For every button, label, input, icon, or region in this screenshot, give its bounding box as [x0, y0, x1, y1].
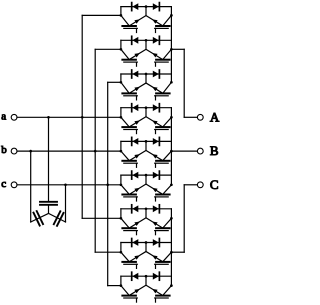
wire: cell S9 top rail: [121, 275, 171, 277]
diode D5b (cathode right): [153, 137, 160, 145]
junction dots cell S2: [120, 48, 123, 51]
wire: cell S1 left stub: [120, 7, 122, 16]
junction: phase b bus on line b: [94, 150, 97, 153]
IGBT T8a (left switch of cell S8): [121, 252, 146, 269]
IGBT T5b (right switch of cell S5): [146, 150, 171, 167]
wire: A branch vertical: [183, 49, 185, 117]
wire: star point to capacitor Cb branch: [31, 213, 49, 222]
svg-text:C: C: [210, 177, 219, 192]
wire: cell S3 top rail: [121, 73, 171, 75]
junction dots cell S6: [120, 183, 123, 186]
svg-text:a: a: [1, 110, 6, 122]
wire: cell S9 left stub: [120, 276, 122, 285]
wire: cell S1 left lead: [82, 14, 121, 16]
wire: A branch to terminal: [184, 116, 197, 118]
IGBT T7a (left switch of cell S7): [121, 218, 146, 235]
wire: Ca to star point: [48, 206, 50, 214]
IGBT T2a (left switch of cell S2): [121, 49, 146, 66]
wire: common emitter stub of cell S2: [145, 40, 147, 49]
bidirectional switch cell S6: [120, 171, 173, 201]
junction dots cell S3: [120, 81, 123, 84]
wire: cell S2 top rail: [121, 39, 171, 41]
wire: common emitter stub of cell S3: [145, 74, 147, 83]
wire: common emitter stub of cell S7: [145, 209, 147, 218]
junction: tap on line a: [47, 116, 50, 119]
IGBT T4b (right switch of cell S4): [146, 117, 171, 134]
wire: cell S9 left lead: [108, 285, 121, 287]
diode D4b (cathode right): [153, 104, 160, 112]
wire: common emitter stub of cell S5: [145, 141, 147, 150]
node A: output phase A terminal: [197, 109, 219, 124]
wire: phase c drop to Cc: [65, 185, 67, 222]
svg-text:A: A: [210, 109, 220, 124]
wire: phase a tap down to filter capacitor Ca: [48, 117, 50, 201]
wire: cell S5 left stub: [120, 141, 122, 151]
diode D3b (cathode right): [153, 70, 160, 78]
wire: cell S6 left stub: [120, 175, 122, 185]
svg-text:B: B: [210, 143, 219, 158]
IGBT T6a (left switch of cell S6): [121, 184, 146, 201]
wire: cell S7 left lead: [82, 217, 121, 219]
bidirectional switch cell S1: [120, 3, 173, 33]
wire: common emitter stub of cell S6: [145, 175, 147, 184]
wire: cell S3 left lead: [108, 81, 121, 83]
wire: cell S2 left lead: [95, 48, 121, 50]
diode D6b (cathode right): [153, 171, 160, 179]
junction dots cell S8: [120, 251, 123, 254]
wire: cell S6 top rail: [121, 174, 171, 176]
wire: phase a bus (cells S1,S7): [81, 15, 83, 218]
diode D3a (cathode left): [132, 70, 139, 78]
IGBT T1a (left switch of cell S1): [121, 15, 146, 32]
wire: C branch to terminal: [184, 184, 197, 186]
diode D1b (cathode right): [153, 3, 160, 11]
junction: tap on line c: [64, 183, 67, 186]
wire: C branch horizontal: [171, 251, 184, 253]
IGBT T7b (right switch of cell S7): [146, 218, 171, 235]
bidirectional switch cell S5: [120, 137, 173, 167]
wire: cell S2 left stub: [120, 40, 122, 49]
junction: tap on line b: [29, 150, 32, 153]
diode D8b (cathode right): [153, 239, 160, 247]
wire: cell S4 top rail: [121, 107, 171, 109]
wire: cell S1 top rail: [121, 6, 171, 8]
junction dots cell S1: [120, 14, 123, 17]
diode D9a (cathode left): [132, 272, 139, 280]
diode D6a (cathode left): [132, 171, 139, 179]
wire: phase b bus (cells S2,S8): [94, 49, 96, 252]
bidirectional switch cell S8: [120, 239, 173, 269]
svg-text:c: c: [1, 178, 6, 190]
wire: cell S8 top rail: [121, 242, 171, 244]
diode D7a (cathode left): [132, 205, 139, 213]
svg-text:b: b: [1, 144, 7, 156]
node B: output phase B terminal: [197, 143, 218, 158]
wire: phase c line to cell S6: [17, 184, 121, 186]
IGBT T9b (right switch of cell S9): [146, 285, 171, 302]
capacitor Cb (slanted plates): [34, 211, 44, 226]
node c: input phase c terminal: [1, 178, 17, 190]
wire: cell S7 left stub: [120, 209, 122, 219]
IGBT T4a (left switch of cell S4): [121, 117, 146, 134]
junction: phase a bus on line a: [81, 116, 84, 119]
wire: common emitter stub of cell S4: [145, 108, 147, 117]
wire: A branch horizontal: [171, 48, 184, 50]
bidirectional switch cell S7: [120, 205, 173, 235]
IGBT T3b (right switch of cell S3): [146, 82, 171, 100]
IGBT T1b (right switch of cell S1): [146, 15, 171, 32]
diode D5a (cathode left): [132, 137, 139, 145]
IGBT T6b (right switch of cell S6): [146, 184, 171, 201]
wire: cell S8 left lead: [95, 251, 121, 253]
node C: output phase C terminal: [197, 177, 218, 192]
wire: phase a line to cell S4: [17, 116, 121, 118]
IGBT T2b (right switch of cell S2): [146, 49, 171, 66]
wire: common emitter stub of cell S8: [145, 243, 147, 252]
wire: cell S8 left stub: [120, 243, 122, 253]
diode D2a (cathode left): [132, 36, 139, 44]
wire: C branch vertical: [183, 185, 185, 252]
IGBT T8b (right switch of cell S8): [146, 252, 171, 269]
IGBT T5a (left switch of cell S5): [121, 150, 146, 167]
wire: phase b drop to Cb: [30, 151, 32, 222]
wire: output B bus (cells S4-S6): [170, 108, 172, 185]
wire: star point to capacitor Cc branch: [49, 213, 66, 222]
wire: common emitter stub of cell S1: [145, 7, 147, 16]
capacitor Cc (slanted plates): [54, 211, 64, 226]
junction: phase c bus on line c: [106, 183, 109, 186]
junction dots cell S7: [120, 217, 123, 220]
bidirectional switch cell S9: [120, 272, 173, 302]
junction dots cell S5: [120, 150, 123, 153]
node a: input phase a terminal: [1, 110, 17, 122]
wire: output C bus (cells S7-S9): [170, 209, 172, 286]
diode D1a (cathode left): [132, 3, 139, 11]
wire: cell S3 left stub: [120, 74, 122, 82]
wire: cell S4 left stub: [120, 108, 122, 118]
wire: phase b line to cell S5: [17, 150, 121, 152]
wire: cell S7 top rail: [121, 208, 171, 210]
wire: B branch to terminal: [171, 150, 197, 152]
IGBT T3a (left switch of cell S3): [121, 82, 146, 100]
bidirectional switch cell S3: [120, 70, 173, 100]
diode D7b (cathode right): [153, 205, 160, 213]
junction dots cell S4: [120, 116, 123, 119]
diode D4a (cathode left): [132, 104, 139, 112]
IGBT T9a (left switch of cell S9): [121, 285, 146, 302]
wire: cell S5 top rail: [121, 140, 171, 142]
diode D2b (cathode right): [153, 36, 160, 44]
wire: output A bus (cells S1-S3): [170, 7, 172, 83]
capacitor Ca (vertical, phase a to star point): [40, 202, 57, 205]
diode D9b (cathode right): [153, 272, 160, 280]
node b: input phase b terminal: [1, 144, 17, 156]
bidirectional switch cell S2: [120, 36, 173, 66]
diode D8a (cathode left): [132, 239, 139, 247]
bidirectional switch cell S4: [120, 104, 173, 134]
junction dots cell S9: [120, 284, 123, 287]
wire: phase c bus (cells S3,S9): [107, 82, 109, 285]
wire: common emitter stub of cell S9: [145, 276, 147, 285]
